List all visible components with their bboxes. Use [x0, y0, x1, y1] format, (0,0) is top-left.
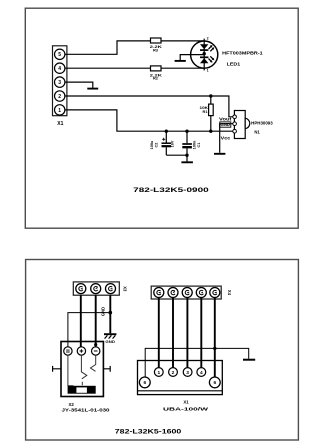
wire pin4 to R2 — [65, 67, 151, 69]
svg-text:GND: GND — [101, 307, 106, 316]
svg-text:782-L32K5-0900: 782-L32K5-0900 — [133, 187, 209, 194]
wire GND net to chassis ground — [109, 313, 111, 334]
svg-text:782-L32K5-1600: 782-L32K5-1600 — [115, 430, 182, 436]
X2 jack opening — [68, 386, 96, 394]
wire X3 pin3 down — [109, 295, 111, 312]
connector X4 — [151, 286, 232, 299]
svg-text:6: 6 — [213, 380, 216, 386]
wire X4 pin3 to X1 pin3 — [186, 298, 188, 368]
wire X4 pin2 to X1 pin2 — [172, 298, 174, 368]
junction node caps bottom — [185, 154, 188, 157]
ground (capacitors) — [181, 161, 193, 163]
svg-text:6: 6 — [143, 380, 146, 386]
IR receiver N1 HPH30093 — [219, 111, 273, 141]
svg-text:X1: X1 — [57, 121, 63, 127]
resistor R3 — [150, 38, 162, 53]
svg-text:4: 4 — [200, 370, 203, 376]
svg-text:R3: R3 — [153, 48, 159, 53]
svg-text:R2: R2 — [153, 76, 159, 81]
junction dot above X2 pin3 — [94, 343, 97, 346]
wire R2 to LED1 bottom — [161, 67, 204, 69]
svg-text:Vout: Vout — [219, 117, 232, 122]
junction node C1 top — [185, 130, 188, 133]
junction node on X4 pin5 wire — [213, 347, 216, 350]
svg-text:GND: GND — [105, 339, 115, 344]
top LED (anode up, cathode to centre) — [200, 44, 208, 49]
connector X1 (bottom sheet) UBA-100/W — [138, 361, 223, 412]
capacitor C1 — [182, 131, 201, 155]
junction dot LED common — [203, 52, 206, 55]
svg-text:Vcc: Vcc — [221, 136, 231, 141]
svg-text:JY-3541L-01-030: JY-3541L-01-030 — [62, 408, 111, 413]
svg-text:C1: C1 — [197, 143, 201, 148]
svg-text:N1: N1 — [254, 130, 260, 135]
junction node GND net — [109, 311, 113, 315]
svg-text:R1: R1 — [203, 109, 209, 114]
wire X4 pin1 to X1 pin1 — [158, 298, 160, 368]
svg-text:1: 1 — [207, 69, 209, 73]
svg-text:100n: 100n — [192, 140, 196, 149]
wire pin1 to Vcc rail — [65, 110, 233, 131]
svg-text:LED1: LED1 — [227, 62, 241, 67]
wire GND net to X2 pin1 — [68, 313, 110, 347]
svg-text:2: 2 — [172, 370, 175, 376]
sheet 1 title 782-L32K5-0900 — [133, 187, 209, 194]
wire caps junction to ground — [186, 155, 188, 161]
sheet 1 border frame — [25, 8, 298, 228]
junction node R1 bottom — [209, 130, 212, 133]
X2 internal switch from pin2 — [81, 355, 86, 385]
svg-text:GND: GND — [221, 122, 231, 127]
svg-text:100u: 100u — [150, 140, 154, 149]
wire pin5 to R3 — [65, 41, 151, 54]
X2 internal switch from pin3 — [91, 355, 96, 371]
capacitor C2 (electrolytic) — [150, 131, 175, 155]
wire C2 bottom to C1 bottom — [166, 154, 187, 156]
svg-text:UBA-100/W: UBA-100/W — [163, 406, 210, 411]
bottom LED (anode down, cathode to centre) — [200, 56, 208, 58]
connector X1 (top sheet) — [53, 46, 67, 127]
ground (LED centre) — [175, 60, 186, 62]
wire X3 pin2 to X2 — [95, 295, 97, 347]
svg-text:X3: X3 — [122, 286, 127, 292]
svg-text:X1: X1 — [183, 400, 189, 405]
emission arrows top — [209, 46, 214, 51]
svg-text:3: 3 — [58, 80, 61, 86]
wire pin3 to ground — [65, 82, 93, 88]
connector X3 — [73, 282, 127, 295]
wire N1 GND pin to ground — [220, 124, 233, 153]
emission arrows bottom — [209, 56, 214, 61]
resistor R2 — [150, 66, 162, 81]
svg-text:X4: X4 — [227, 290, 232, 296]
svg-text:16V: 16V — [171, 140, 175, 147]
chassis ground GND — [104, 334, 116, 344]
ground net wire (sheet2 right) — [145, 348, 249, 377]
svg-text:HFT003MPBR-1: HFT003MPBR-1 — [222, 50, 263, 55]
ground (X1 pin3) — [87, 88, 98, 90]
wire X4 pin5 to X1 right pin — [214, 298, 216, 378]
junction node R1 top — [209, 94, 212, 97]
svg-text:2: 2 — [58, 94, 61, 100]
wire R3 to LED1 top — [161, 40, 204, 42]
sheet 2 title 782-L32K5-1600 — [115, 430, 182, 436]
svg-text:2: 2 — [207, 37, 209, 41]
wire X4 pin4 to X1 pin4 — [200, 298, 202, 368]
resistor R1 — [200, 96, 214, 131]
X2 internal contact from pin1 — [68, 355, 74, 386]
X2 side lugs — [53, 366, 61, 372]
svg-text:HPH30093: HPH30093 — [251, 120, 273, 125]
wire LED centre to ground — [180, 55, 204, 61]
svg-text:C2: C2 — [155, 143, 159, 148]
LED1 dual LED HFT003MPBR-1 — [191, 37, 264, 73]
svg-text:1: 1 — [157, 370, 160, 376]
net label GND — [101, 307, 106, 316]
svg-text:3: 3 — [186, 370, 189, 376]
svg-text:5: 5 — [58, 52, 61, 58]
power jack X2 — [53, 342, 111, 413]
svg-text:1: 1 — [58, 108, 61, 114]
ground (sheet2) — [243, 359, 255, 361]
wire X3 pin1 to X2 — [80, 295, 82, 347]
ground (N1 GND) — [214, 153, 225, 155]
sheet 2 border frame — [26, 260, 299, 441]
svg-text:4: 4 — [58, 66, 61, 72]
wire pin2 to N1 Vout — [65, 96, 233, 117]
svg-text:X2: X2 — [69, 402, 75, 407]
junction node C2 top — [165, 130, 168, 133]
